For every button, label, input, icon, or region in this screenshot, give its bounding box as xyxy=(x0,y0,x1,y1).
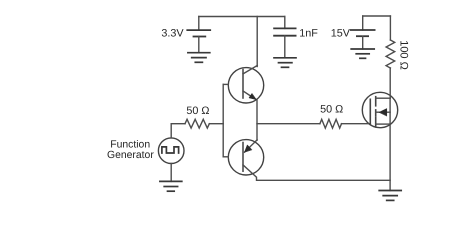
wire 15V top xyxy=(363,15,391,17)
ground (1nF) xyxy=(274,57,296,59)
wire fn-gen to ground xyxy=(170,164,172,182)
wire R1 to base bus xyxy=(209,123,223,125)
ground (bottom right) xyxy=(379,190,401,192)
svg-text:100 Ω: 100 Ω xyxy=(397,40,409,70)
wire top rail xyxy=(199,16,285,18)
transistor M1 MOSFET internals xyxy=(369,99,371,124)
resistor R1 50 ohm xyxy=(185,119,209,128)
wire emitter bus xyxy=(256,100,258,141)
wire fn-gen stem up xyxy=(170,124,172,138)
function generator square wave glyph xyxy=(162,147,179,153)
wire 15V stem xyxy=(362,16,364,30)
wire collector drop to Q1 xyxy=(256,17,258,67)
wire to 100 ohm xyxy=(389,16,391,40)
svg-text:15V: 15V xyxy=(331,27,351,39)
wire 1nF stem xyxy=(284,17,286,29)
transistor Q1 (NPN) circle xyxy=(228,68,263,103)
battery V1 3.3V plates xyxy=(187,29,210,31)
capacitor C1 1nF plates xyxy=(274,27,296,29)
transistor M1 (MOSFET) circle xyxy=(362,92,397,127)
wire 3.3V stem xyxy=(198,17,200,31)
resistor R3 100 ohm xyxy=(386,40,395,68)
wire 3.3V to ground xyxy=(198,37,200,53)
battery V2 15V plates xyxy=(351,29,375,31)
wire 15V to ground xyxy=(362,36,364,49)
svg-text:Function: Function xyxy=(110,139,150,150)
wire 100 ohm to drain xyxy=(389,68,391,98)
wire bottom rail xyxy=(257,179,390,181)
wire base bus xyxy=(222,84,224,156)
ground (15V) xyxy=(351,48,374,50)
wire source drop xyxy=(389,124,391,190)
svg-text:3.3V: 3.3V xyxy=(161,27,184,39)
transistor Q2 PNP internals xyxy=(242,143,244,172)
svg-text:50 Ω: 50 Ω xyxy=(320,104,343,116)
wire Q2 base stub xyxy=(223,156,228,158)
wire output to R2 xyxy=(257,123,320,125)
ground (3.3V) xyxy=(188,52,210,54)
wire Q1 base stub xyxy=(223,83,228,85)
wire fn-gen to R1 xyxy=(171,123,185,125)
svg-text:Generator: Generator xyxy=(107,150,154,161)
transistor Q2 (PNP) circle xyxy=(228,140,263,175)
svg-text:50 Ω: 50 Ω xyxy=(186,105,209,117)
wire R2 to gate xyxy=(342,123,371,125)
svg-text:1nF: 1nF xyxy=(299,27,318,39)
function generator circle xyxy=(158,138,184,164)
wire 1nF to ground xyxy=(284,36,286,58)
transistor Q1 NPN internals xyxy=(242,70,244,99)
ground (function generator) xyxy=(160,180,182,182)
resistor R2 50 ohm xyxy=(320,119,342,128)
